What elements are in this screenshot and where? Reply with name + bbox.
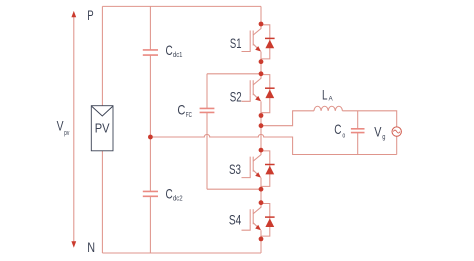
wire: leg S4 to bottom bus [260,239,262,253]
wire: bottom DC bus N [102,252,261,254]
svg-text:FC: FC [186,112,192,119]
label S2 [230,88,242,104]
wire: leg top segment [260,6,262,24]
label PV [95,121,110,136]
svg-text:C: C [166,187,173,202]
capacitor C_FC leads [206,74,208,189]
junction dot: output tap [259,123,264,128]
emitter arrow of S1 [255,46,261,51]
V_pv arrowhead top [71,11,76,17]
junction dot: DC-link midpoint [148,135,153,140]
antiparallel diode of S2 [261,75,270,113]
antiparallel diode of S3 [261,151,270,187]
capacitor C_o leads [357,111,359,155]
label C_o [334,122,345,140]
svg-text:o: o [342,133,345,140]
emitter arrow of S4 [255,225,261,230]
svg-text:dc2: dc2 [173,196,183,203]
label V_pv [57,119,70,137]
transistor S3 (IGBT) [242,150,262,189]
capacitor C_o plates [351,129,365,133]
svg-text:V: V [374,125,381,140]
wire: leg between output tap and S3 [260,126,262,150]
wire: V_g bottom lead [396,136,398,154]
label C_dc2 [166,187,183,203]
capacitor C_dc2 plates [143,191,158,196]
wire: midpoint link with hops over C_FC branch and leg, to output return rail [150,134,396,154]
svg-text:C: C [334,122,341,137]
capacitor C_dc1 plates [143,50,158,55]
wire: top DC bus P [102,5,261,7]
svg-text:V: V [57,119,64,134]
label P [87,8,93,23]
capacitor C_FC plates [200,108,215,112]
wire: output tap to filter top rail [261,111,314,126]
node dot S3 emitter [259,187,264,192]
svg-text:S2: S2 [230,88,242,104]
svg-text:dc1: dc1 [173,52,183,59]
V_pv arrowhead bottom [71,241,76,247]
label C_dc1 [166,43,183,59]
emitter arrow of S2 [255,96,261,101]
svg-text:C: C [177,103,185,118]
label N [87,240,95,255]
node dot S2 collector [259,71,264,76]
node dot S4 collector [259,200,264,205]
wire: top rail after inductor [342,111,396,127]
label L_A [322,88,334,103]
wire: C_FC bottom link [207,188,261,190]
svg-text:pv: pv [64,130,70,137]
wire: C_FC top link [207,73,261,75]
svg-text:N: N [87,240,95,255]
wire: left PV branch lower [101,151,103,253]
svg-text:C: C [166,43,173,58]
V_pv arrow line [73,17,75,243]
label S4 [229,212,242,228]
inductor L_A humps [314,106,342,111]
antiparallel diode of S4 [261,204,270,237]
wire: leg between S2 and output tap [260,116,262,126]
svg-text:PV: PV [95,121,110,136]
transistor S2 (IGBT) [242,74,262,116]
transistor S1 (IGBT) [242,24,262,62]
node dot S3 collector [259,148,264,153]
PV module box [91,106,113,151]
svg-text:S3: S3 [229,161,241,177]
label C_FC [177,103,192,120]
svg-text:P: P [87,8,93,23]
node dot S1 emitter [259,59,264,64]
capacitor C_dc2 leads [149,137,151,253]
label S1 [230,35,242,51]
emitter arrow of S3 [255,172,261,177]
label S3 [229,161,241,177]
wire: leg between S1 and S2 [260,62,262,74]
node dot S1 collector [259,22,264,27]
wire: left PV branch upper [101,6,103,105]
svg-text:L: L [322,88,328,103]
svg-text:S4: S4 [229,212,242,228]
svg-text:S1: S1 [230,35,242,51]
label V_g [374,125,385,141]
node dot S4 emitter [259,237,264,242]
wire: leg between S3 and S4 [260,189,262,203]
svg-text:g: g [382,134,385,141]
node dot S2 emitter [259,113,264,118]
antiparallel diode of S1 [261,25,270,59]
transistor S4 (IGBT) [242,203,262,239]
capacitor C_dc1 leads [149,6,151,137]
AC source V_g circle [392,127,401,136]
